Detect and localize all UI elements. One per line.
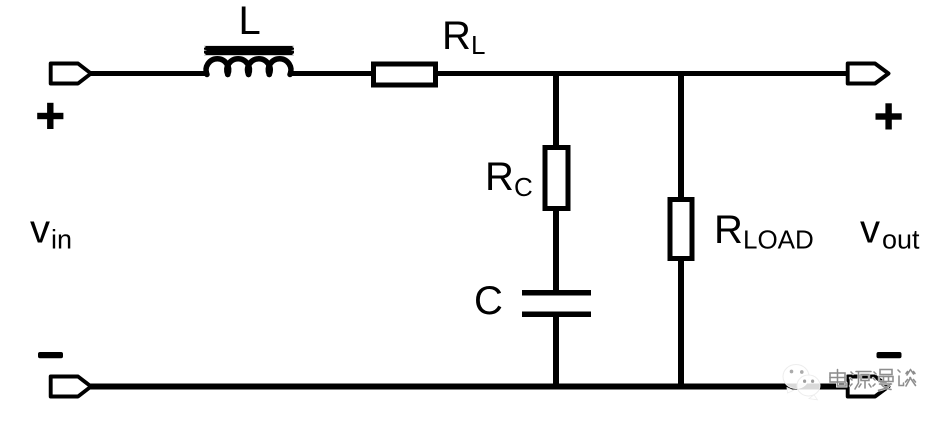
resistor R_LOAD body xyxy=(670,200,692,259)
svg-text:C: C xyxy=(474,279,503,323)
terminal input bottom xyxy=(51,377,91,397)
svg-text:in: in xyxy=(51,225,72,255)
resistor R_C body xyxy=(545,148,568,209)
svg-text:v: v xyxy=(860,208,880,252)
label R_LOAD xyxy=(714,208,814,255)
plus sign input xyxy=(37,103,63,129)
minus sign input xyxy=(38,352,63,358)
wire bottom rail xyxy=(90,384,848,390)
svg-text:L: L xyxy=(471,30,485,60)
capacitor C bottom plate xyxy=(522,312,591,318)
wire top rail right segment xyxy=(288,71,848,76)
svg-text:v: v xyxy=(30,208,50,252)
plus sign output xyxy=(876,103,902,129)
wire top rail left segment xyxy=(90,71,209,76)
label v_in xyxy=(30,208,72,255)
wire capacitor to bottom rail xyxy=(553,316,559,389)
inductor L coil xyxy=(206,59,291,75)
terminal input top xyxy=(51,64,91,84)
svg-text:out: out xyxy=(882,225,920,255)
svg-text:LOAD: LOAD xyxy=(743,225,814,255)
wire R_LOAD branch vertical xyxy=(678,71,684,389)
svg-text:R: R xyxy=(485,155,514,199)
watermark wechat logo xyxy=(783,365,820,400)
label R_C xyxy=(485,155,533,202)
glyph yuan xyxy=(850,372,871,390)
resistor R_L body xyxy=(374,64,436,85)
minus sign output xyxy=(877,352,902,358)
capacitor C top plate xyxy=(522,290,591,296)
label v_out xyxy=(860,208,920,255)
svg-text:C: C xyxy=(514,172,533,202)
label R_L xyxy=(442,14,485,60)
terminal output bottom xyxy=(848,377,889,397)
glyph dian xyxy=(830,370,846,387)
svg-text:L: L xyxy=(239,0,261,43)
glyph man xyxy=(873,370,893,391)
wire R_C branch vertical (node to capacitor) xyxy=(553,71,559,291)
inductor L core bar xyxy=(204,46,294,55)
watermark text 电源漫谈 xyxy=(830,370,916,391)
svg-text:R: R xyxy=(442,14,471,58)
glyph tan xyxy=(898,370,916,387)
svg-text:R: R xyxy=(714,208,743,252)
terminal output top xyxy=(848,64,889,84)
